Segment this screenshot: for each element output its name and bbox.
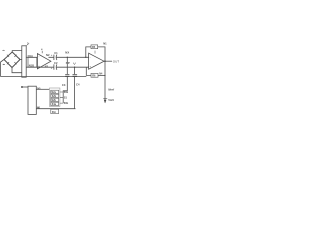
svg-text:N3: N3 bbox=[45, 65, 49, 69]
svg-text:R5: R5 bbox=[92, 46, 96, 49]
svg-text:62b: 62b bbox=[52, 95, 57, 98]
svg-text:-: - bbox=[90, 55, 91, 59]
svg-text:S2b: S2b bbox=[52, 99, 57, 102]
svg-text:5mV: 5mV bbox=[108, 98, 114, 102]
svg-text:C3: C3 bbox=[62, 83, 66, 87]
svg-text:N1: N1 bbox=[103, 42, 107, 46]
svg-text:C1: C1 bbox=[54, 51, 58, 55]
svg-text:N6: N6 bbox=[37, 105, 41, 109]
svg-text:+: + bbox=[51, 67, 53, 70]
svg-text:4: 4 bbox=[41, 48, 43, 52]
svg-text:NX: NX bbox=[65, 50, 69, 54]
svg-text:N1B: N1B bbox=[29, 64, 34, 68]
svg-text:-: - bbox=[39, 55, 40, 59]
svg-text:Nref: Nref bbox=[108, 87, 115, 91]
svg-text:60a: 60a bbox=[64, 91, 69, 94]
svg-text:NP: NP bbox=[66, 61, 70, 65]
svg-text:66c: 66c bbox=[52, 111, 57, 114]
svg-text:N1A: N1A bbox=[28, 54, 33, 58]
svg-text:C4: C4 bbox=[76, 83, 80, 87]
svg-text:S2a: S2a bbox=[52, 91, 57, 94]
svg-text:C2: C2 bbox=[54, 61, 58, 65]
svg-text:60b: 60b bbox=[64, 102, 69, 105]
svg-text:OUT: OUT bbox=[113, 59, 120, 63]
svg-text:64a: 64a bbox=[52, 103, 57, 106]
svg-text:S1: S1 bbox=[64, 96, 68, 99]
svg-text:+: + bbox=[51, 54, 53, 57]
svg-text:N2: N2 bbox=[46, 53, 50, 57]
svg-text:N5: N5 bbox=[37, 87, 41, 91]
